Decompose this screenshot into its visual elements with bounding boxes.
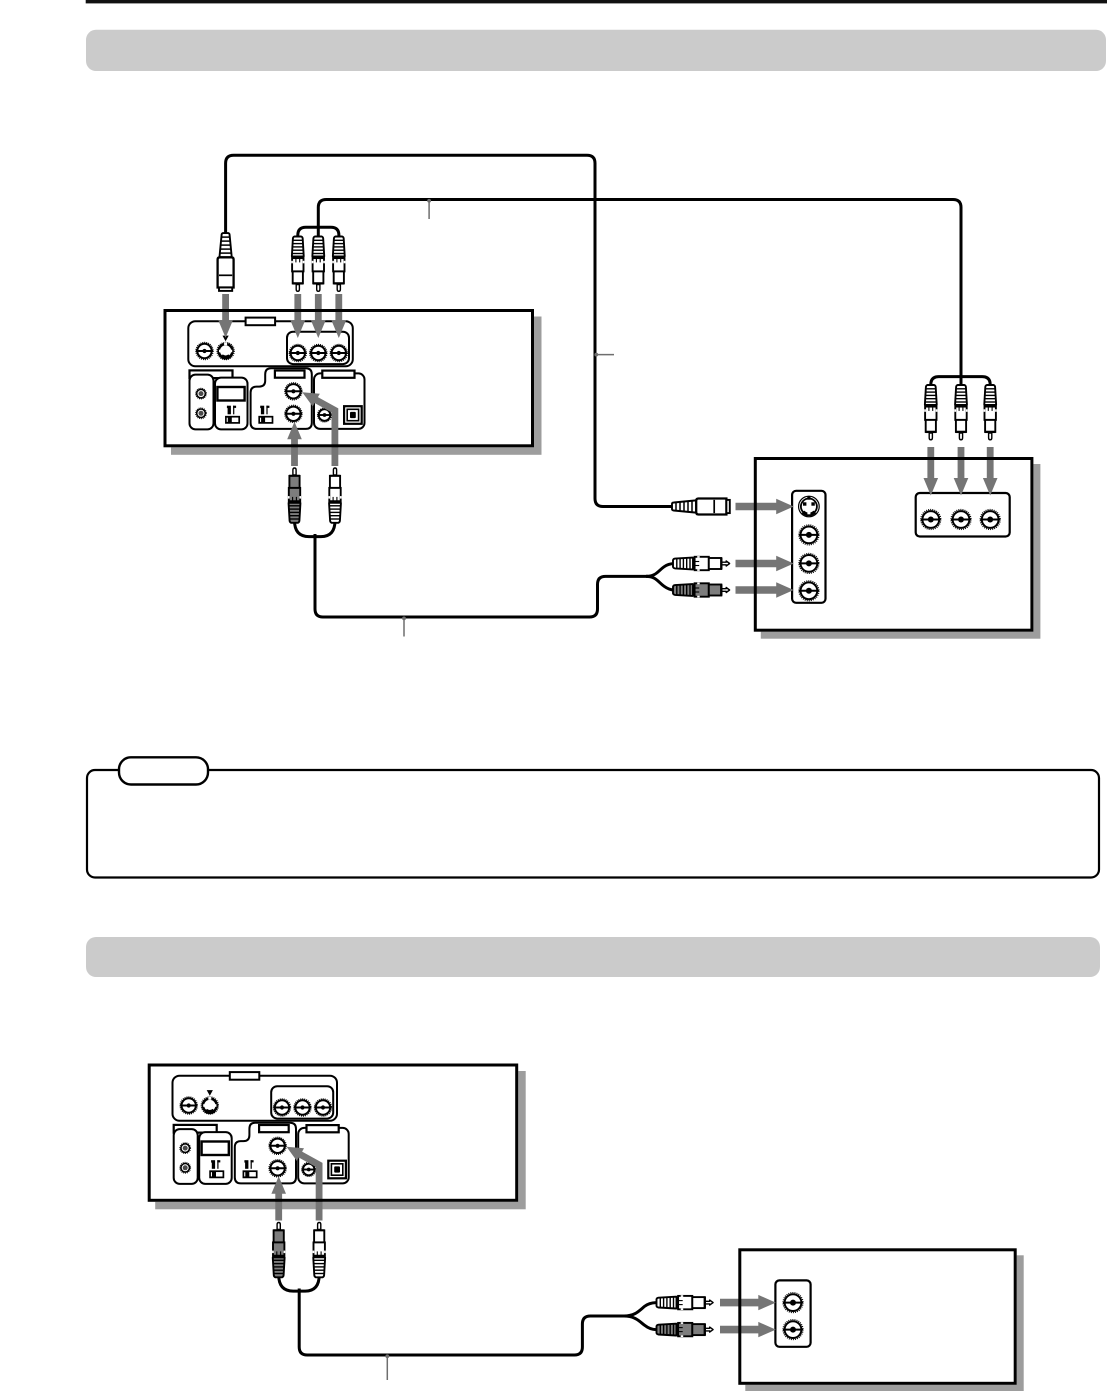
arrow into TV audio input R <box>736 582 794 597</box>
leader tick on s-video cable <box>597 354 615 356</box>
section header bar 2 <box>86 937 1100 977</box>
DVD recorder (device C) rear-panel innards <box>173 1072 349 1184</box>
TV (device B) body <box>754 457 1034 632</box>
arrow up into audio out jack R <box>287 422 302 466</box>
s-video cable <box>226 155 673 506</box>
audio plug white below device A <box>328 468 341 523</box>
audio plug gray at TV <box>673 583 730 598</box>
lower audio branch to gray plug <box>624 1316 656 1330</box>
TV component jack Pr <box>980 510 1000 530</box>
lower audio branch to white plug <box>624 1303 656 1316</box>
component plug Y at TV <box>924 385 937 440</box>
bent arrow up into device C audio jack L <box>287 1147 323 1221</box>
leader tick on lower audio cable <box>386 1357 388 1381</box>
amplifier input jack R <box>783 1320 803 1340</box>
lower audio cable from dark plug <box>279 1275 300 1291</box>
TV component jack Y <box>921 510 941 530</box>
s-video plug into device A <box>218 233 234 291</box>
arrow into amplifier jack L <box>720 1295 776 1310</box>
TV (device B) drop shadow <box>761 464 1041 639</box>
TV audio input jack R <box>799 581 819 601</box>
TV audio input jack L <box>799 553 819 573</box>
amplifier input panel <box>775 1280 810 1346</box>
TV component input panel <box>916 493 1010 537</box>
TV component jack Pb <box>951 510 971 530</box>
audio cable branch to white plug <box>646 564 674 577</box>
TV video input jack <box>799 525 819 545</box>
DVD recorder (device A) drop shadow <box>171 317 542 455</box>
DVD recorder (device A) rear-panel innards <box>188 318 364 430</box>
DVD recorder (device A) border <box>165 311 533 446</box>
leader tick on audio cable <box>403 619 405 637</box>
arrow into component jack Y <box>291 294 306 338</box>
TV video input panel <box>792 491 825 603</box>
component plug Pb at device A <box>312 237 325 292</box>
s-video plug at TV <box>672 499 730 515</box>
arrow into TV component jack Pb <box>954 447 969 496</box>
TV s-video input jack <box>799 496 820 517</box>
audio plug white at amplifier <box>657 1295 714 1310</box>
audio plug gray below device A <box>288 468 301 523</box>
top rule <box>86 0 1107 3</box>
audio plug white below device C <box>313 1223 326 1278</box>
DVD recorder (device C) border <box>149 1065 517 1200</box>
arrow into component jack Pr <box>332 294 347 338</box>
arrow into TV audio input L <box>736 556 794 571</box>
arrow into TV s-video input <box>736 499 794 514</box>
arrow into TV component jack Pr <box>983 447 998 496</box>
section header bar 1 <box>86 30 1106 71</box>
audio cable from white plug <box>315 521 335 537</box>
amplifier (device D) body <box>738 1248 1016 1385</box>
amplifier (device D) drop shadow <box>745 1255 1023 1391</box>
audio plug white at TV <box>673 556 730 571</box>
note tab capsule <box>119 757 208 784</box>
arrow into s-video jack <box>218 294 233 338</box>
arrow into TV component jack Y <box>924 447 939 496</box>
audio plug gray below device C <box>272 1223 285 1278</box>
component plug Pr at TV <box>984 385 997 440</box>
audio cable from dark plug <box>295 521 316 537</box>
TV (device B) border <box>755 459 1032 631</box>
amplifier (device D) border <box>740 1250 1015 1384</box>
audio cable branch to gray plug <box>646 576 674 590</box>
leader tick on component cable <box>428 201 430 219</box>
arrow up into device C audio jack R <box>271 1176 286 1220</box>
component video cable <box>318 200 961 388</box>
audio cable main run <box>315 534 648 617</box>
DVD recorder (device C) drop shadow <box>155 1071 526 1209</box>
arrow into amplifier jack R <box>720 1322 776 1337</box>
DVD recorder (device C) body <box>148 1064 519 1202</box>
arrow into component jack Pb <box>311 294 326 338</box>
component plug Y at device A <box>291 237 304 292</box>
amplifier input jack L <box>783 1293 803 1313</box>
lower audio cable from white plug <box>299 1275 319 1291</box>
audio plug gray at amplifier <box>657 1322 714 1337</box>
component cable bundle at TV <box>931 377 990 387</box>
DVD recorder (device A) body <box>164 309 535 447</box>
component plug Pr at device A <box>332 237 345 292</box>
note box <box>87 770 1099 878</box>
component plug Pb at TV <box>954 385 967 440</box>
lower audio cable main run <box>299 1289 628 1356</box>
bent arrow up into audio out jack L <box>302 392 338 466</box>
component cable bundle at device A <box>298 227 339 239</box>
